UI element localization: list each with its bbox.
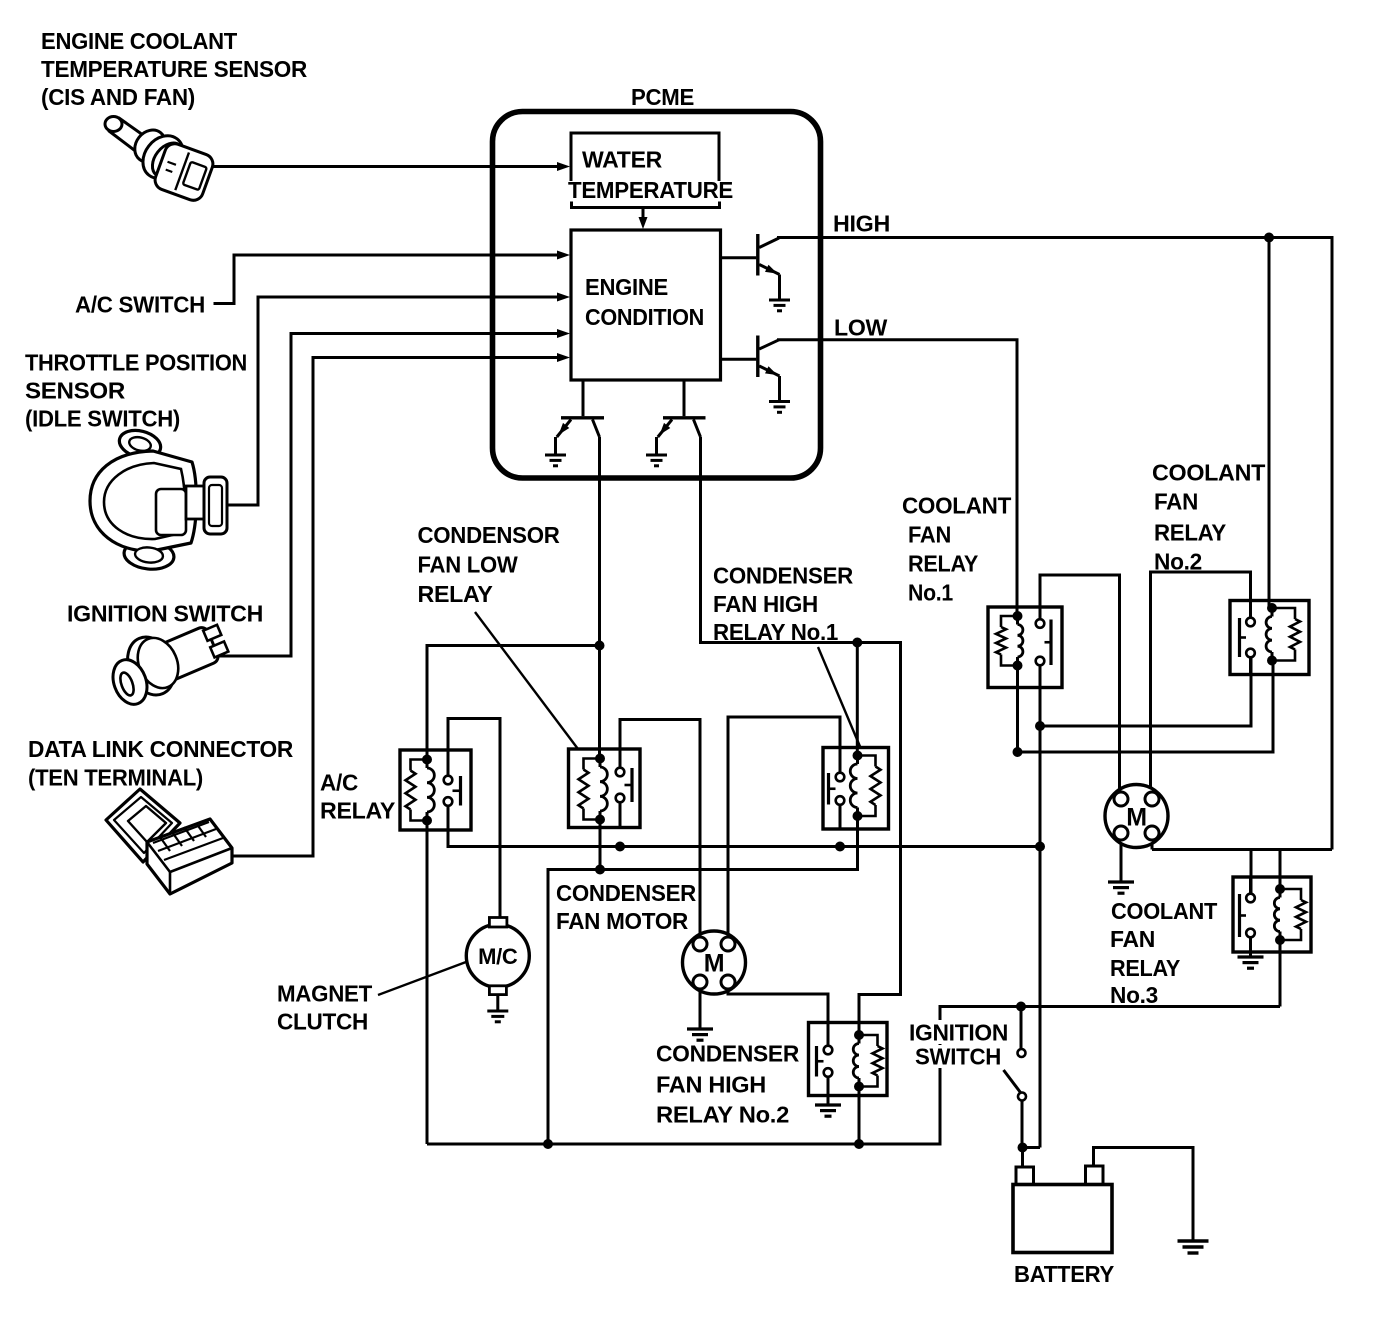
svg-text:CLUTCH: CLUTCH xyxy=(277,1009,368,1035)
label: A/C RELAY xyxy=(320,770,395,824)
label: COOLANT FAN RELAY No.2 xyxy=(1152,460,1265,575)
svg-text:CONDENSOR: CONDENSOR xyxy=(418,522,561,548)
svg-text:MAGNET: MAGNET xyxy=(277,981,372,1007)
relay: coolant fan relay No.2 xyxy=(1230,601,1309,675)
transistor Q1 (HIGH output) xyxy=(721,234,780,300)
wire: coolant fan relay No.1 switch to coolant fan motor xyxy=(1040,575,1120,792)
wire: condensor fan low relay coil ground branch xyxy=(595,820,605,875)
wire: HIGH leg to coolant fan motor and relay No.3 xyxy=(1152,840,1332,893)
svg-text:BATTERY: BATTERY xyxy=(1014,1261,1114,1287)
svg-text:FAN LOW: FAN LOW xyxy=(418,552,519,578)
svg-text:WATER: WATER xyxy=(582,147,663,173)
label: CONDENSER FAN HIGH RELAY No.2 xyxy=(656,1041,800,1128)
svg-text:ENGINE COOLANT: ENGINE COOLANT xyxy=(41,28,237,54)
wire: throttle position sensor to ENGINE CONDITION input 2 xyxy=(225,293,570,506)
relay: condensor fan low relay xyxy=(569,749,641,828)
svg-text:RELAY: RELAY xyxy=(320,798,395,824)
svg-text:SWITCH: SWITCH xyxy=(915,1044,1001,1070)
ground of Q4 xyxy=(646,455,667,466)
svg-text:CONDITION: CONDITION xyxy=(585,304,704,330)
label: A/C SWITCH xyxy=(75,292,214,318)
wire: coolant fan relay No.1 coil to relay No.2 coil xyxy=(1013,661,1274,758)
ground of battery xyxy=(1178,1241,1209,1253)
relay: condenser fan high relay No.1 xyxy=(823,748,889,830)
svg-text:COOLANT: COOLANT xyxy=(902,493,1011,519)
svg-text:FAN HIGH: FAN HIGH xyxy=(656,1072,766,1098)
ground of Q1 xyxy=(769,300,790,311)
svg-text:RELAY: RELAY xyxy=(1154,520,1226,546)
wire: battery feed bus (relay switch commons) xyxy=(448,806,1045,852)
svg-text:DATA LINK CONNECTOR: DATA LINK CONNECTOR xyxy=(28,736,294,762)
ENGINE CONDITION block xyxy=(571,230,721,380)
transistor Q3 (condensor fan low relay driver) xyxy=(556,380,605,455)
svg-text:RELAY: RELAY xyxy=(1110,955,1180,981)
PCME box xyxy=(493,112,821,479)
svg-text:M/C: M/C xyxy=(478,944,518,969)
relay: condenser fan high relay No.2 xyxy=(809,1023,888,1096)
svg-text:TEMPERATURE SENSOR: TEMPERATURE SENSOR xyxy=(41,56,308,82)
svg-text:No.2: No.2 xyxy=(1154,549,1202,575)
svg-text:LOW: LOW xyxy=(834,315,888,341)
wire: ECT sensor to WATER TEMPERATURE input xyxy=(207,162,570,171)
svg-text:TEMPERATURE: TEMPERATURE xyxy=(568,177,733,203)
svg-text:A/C SWITCH: A/C SWITCH xyxy=(75,292,205,318)
ground of magnet clutch xyxy=(487,1011,508,1022)
ignition switch icon (key cylinder) xyxy=(107,621,230,709)
data link connector icon xyxy=(106,789,232,894)
svg-text:FAN HIGH: FAN HIGH xyxy=(713,591,818,617)
battery xyxy=(1013,1166,1112,1253)
wire: data link connector to ENGINE CONDITION input 4 xyxy=(223,353,570,856)
svg-text:A/C: A/C xyxy=(320,770,358,796)
label: COOLANT FAN RELAY No.3 xyxy=(1110,898,1217,1008)
motor: coolant fan motor xyxy=(1105,785,1168,848)
ground of condenser fan high relay No.2 xyxy=(815,1105,841,1116)
transistor Q2 (LOW output) xyxy=(721,336,780,402)
leader line: condensor fan low relay label xyxy=(475,612,578,749)
svg-text:THROTTLE POSITION: THROTTLE POSITION xyxy=(25,350,247,376)
motor: condenser fan motor xyxy=(683,931,746,994)
svg-text:PCME: PCME xyxy=(631,84,694,110)
svg-text:M: M xyxy=(1126,804,1147,832)
wire: A/C relay coil top branch xyxy=(427,641,605,760)
svg-text:IGNITION: IGNITION xyxy=(909,1020,1008,1046)
wire: coolant fan relay No.1/No.2 switch common to battery xyxy=(1018,657,1252,1167)
wire: WATER TEMPERATURE to ENGINE CONDITION (arrow) xyxy=(639,208,648,230)
label: CONDENSOR FAN LOW RELAY xyxy=(418,522,561,607)
wire: A/C relay switch to magnet clutch xyxy=(448,719,500,919)
relay: coolant fan relay No.1 xyxy=(988,607,1062,688)
svg-text:FAN: FAN xyxy=(908,522,951,548)
ignition switch (contact symbol) xyxy=(1004,1007,1027,1148)
relay: coolant fan relay No.3 xyxy=(1233,877,1311,952)
wire: relay coil ground bus xyxy=(548,816,858,1144)
label: CONDENSER FAN HIGH RELAY No.1 xyxy=(713,563,854,646)
svg-text:COOLANT: COOLANT xyxy=(1111,898,1217,924)
wire: coolant fan relay No.3 switch to ground xyxy=(1249,937,1252,957)
wire: condenser fan motor to ground xyxy=(699,989,702,1029)
wire: magnet clutch to ground xyxy=(496,995,499,1011)
wire: LOW net from Q2 to coolant fan relay No.1 coil xyxy=(777,340,1017,616)
ground of coolant fan relay No.3 xyxy=(1238,957,1264,968)
wire: HIGH net from Q1 to coolant fan relays xyxy=(777,233,1332,850)
svg-text:IGNITION SWITCH: IGNITION SWITCH xyxy=(67,601,263,627)
ground of Q3 xyxy=(545,455,566,466)
svg-text:SENSOR: SENSOR xyxy=(25,378,126,404)
svg-text:HIGH: HIGH xyxy=(833,211,890,237)
svg-text:RELAY No.2: RELAY No.2 xyxy=(656,1102,789,1128)
transistor Q4 (condenser fan high relay No.1/No.2 driver) xyxy=(657,380,706,455)
svg-text:RELAY: RELAY xyxy=(908,551,978,577)
wire: coolant fan relay No.2 switch to coolant fan motor xyxy=(1151,572,1251,792)
label: IGNITION SWITCH (contact) xyxy=(906,1020,1011,1070)
relay: A/C relay xyxy=(400,750,471,830)
label: COOLANT FAN RELAY No.1 xyxy=(902,493,1011,606)
svg-text:FAN MOTOR: FAN MOTOR xyxy=(556,908,689,934)
label: ENGINE COOLANT TEMPERATURE SENSOR (CIS AND FAN) xyxy=(41,28,308,110)
wire: condenser fan high relay No.1 switch to condenser fan motor xyxy=(728,717,840,937)
wire: condenser fan high relay No.2 coil to ground bus xyxy=(858,1087,861,1145)
wire: Q3 collector to condensor fan low relay coil xyxy=(598,437,601,759)
svg-text:CONDENSER: CONDENSER xyxy=(713,563,854,589)
svg-text:(TEN TERMINAL): (TEN TERMINAL) xyxy=(28,765,203,791)
svg-text:No.1: No.1 xyxy=(908,580,953,606)
svg-text:CONDENSER: CONDENSER xyxy=(656,1041,800,1067)
throttle position sensor icon xyxy=(90,426,227,571)
WATER TEMPERATURE block xyxy=(568,133,733,208)
engine coolant temperature sensor icon xyxy=(105,117,216,204)
label: CONDENSER FAN MOTOR xyxy=(556,880,697,934)
wire: battery negative to ground xyxy=(1094,1148,1194,1242)
wire: ignition switch to ENGINE CONDITION input 3 xyxy=(216,329,570,656)
svg-text:ENGINE: ENGINE xyxy=(585,274,668,300)
wire: A/C SWITCH to ENGINE CONDITION input 1 xyxy=(214,251,571,304)
label: MAGNET CLUTCH xyxy=(277,981,372,1035)
wire: condenser fan motor to condenser fan high relay No.2 switch xyxy=(728,989,828,1046)
svg-text:COOLANT: COOLANT xyxy=(1152,460,1265,486)
wire: bottom ground/ignition bus xyxy=(427,940,1280,1149)
ground of Q2 xyxy=(769,402,790,413)
svg-text:RELAY: RELAY xyxy=(418,581,493,607)
label: THROTTLE POSITION SENSOR (IDLE SWITCH) xyxy=(25,350,247,432)
svg-text:CONDENSER: CONDENSER xyxy=(556,880,697,906)
svg-text:(IDLE SWITCH): (IDLE SWITCH) xyxy=(25,406,180,432)
wire: condenser fan high relay No.2 switch to ground xyxy=(827,1077,830,1105)
svg-text:FAN: FAN xyxy=(1154,489,1198,515)
leader line: magnet clutch label xyxy=(378,962,466,995)
wire: condensor fan low relay switch to condenser fan motor xyxy=(620,720,700,937)
wire: Q4 collector to condenser fan high relay No.1 and No.2 coils xyxy=(701,437,901,1035)
svg-text:M: M xyxy=(704,950,725,978)
label: DATA LINK CONNECTOR (TEN TERMINAL) xyxy=(28,736,294,791)
svg-text:RELAY No.1: RELAY No.1 xyxy=(713,619,838,645)
svg-text:(CIS AND FAN): (CIS AND FAN) xyxy=(41,84,195,110)
wire: coolant fan motor to ground xyxy=(1120,840,1123,882)
ground of coolant fan motor xyxy=(1108,882,1134,893)
motor: magnet clutch M/C xyxy=(466,918,529,995)
svg-text:FAN: FAN xyxy=(1110,926,1155,952)
leader line: condenser fan high relay No.1 label xyxy=(818,647,860,747)
wire: A/C relay coil to ground bus xyxy=(426,821,429,1145)
svg-text:No.3: No.3 xyxy=(1110,982,1158,1008)
ground of condenser fan motor xyxy=(687,1029,713,1040)
